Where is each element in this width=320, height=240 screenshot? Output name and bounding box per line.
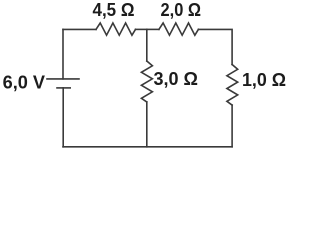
svg-text:1,0 Ω: 1,0 Ω [242, 69, 286, 90]
svg-text:2,0 Ω: 2,0 Ω [161, 0, 202, 20]
svg-text:4,5 Ω: 4,5 Ω [93, 0, 135, 20]
wire: bottom horizontal [63, 146, 232, 148]
svg-text:6,0 V: 6,0 V [3, 71, 46, 92]
wire: right side below R4 to bottom-right corner [231, 105, 233, 147]
resistor R1 (4,5 ohm) zigzag [96, 23, 136, 35]
wire: top-left horizontal segment [63, 28, 96, 30]
battery V1 (6,0 V) negative short plate [57, 87, 70, 89]
wire: left side below battery to bottom-left corner [62, 88, 64, 147]
svg-text:3,0 Ω: 3,0 Ω [154, 68, 199, 89]
resistor R3 (3,0 ohm) vertical zigzag [141, 61, 152, 102]
wire: left side top (corner down to battery + plate) [62, 29, 64, 79]
battery V1 (6,0 V) positive long plate [47, 78, 79, 80]
wire: middle branch bottom (R3 down to bottom wire) [146, 102, 148, 147]
resistor R2 (2,0 ohm) zigzag [159, 23, 199, 35]
wire: R1 to node A [136, 28, 147, 30]
wire: middle branch top (node A down to R3) [146, 29, 148, 61]
wire: node A to R2 [147, 28, 159, 30]
wire: top-right segment and right side down to R4 [198, 29, 232, 64]
resistor R4 (1,0 ohm) vertical zigzag [227, 65, 238, 106]
